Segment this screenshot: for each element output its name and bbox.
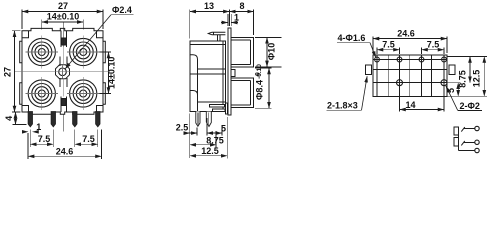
corner step top-left <box>22 31 29 38</box>
body edge continuation behind side tabs <box>22 41 103 104</box>
jack C (bottom-left) circles <box>28 80 55 107</box>
ground wire to terminal 3 <box>458 150 474 152</box>
svg-text:13: 13 <box>204 1 214 11</box>
jack C centerlines <box>26 77 59 110</box>
dim 1 (flange thickness) <box>221 13 239 27</box>
slot left 1.8x3 <box>365 65 371 74</box>
svg-text:27: 27 <box>3 67 13 77</box>
dim 12.5 <box>190 117 228 158</box>
upper barrel <box>231 37 253 67</box>
hole G2 Φ2 <box>441 80 447 86</box>
switch contact 2 wire <box>464 141 475 143</box>
label 2-1.8×3 with leader <box>327 76 368 111</box>
dim 24.6 extension lines <box>373 37 447 54</box>
lower barrel <box>231 78 253 108</box>
switch contact 1 wire <box>464 128 475 130</box>
dim 8.75 <box>190 131 224 147</box>
jack B centerlines <box>67 36 100 69</box>
flange plate <box>228 28 231 115</box>
pin P1 <box>28 112 32 127</box>
dim 27 top dimension line <box>22 11 103 13</box>
svg-text:4: 4 <box>4 116 14 121</box>
contact block rectangle 1 <box>454 127 458 135</box>
svg-text:7.5: 7.5 <box>427 40 440 50</box>
dim 7.5 right pair <box>75 130 98 147</box>
dim 14±0.10 top dimension line <box>42 20 83 30</box>
svg-text:4-Φ1.6: 4-Φ1.6 <box>338 33 366 43</box>
dim 27 top extension lines <box>22 10 103 30</box>
jack B (top-right) circles <box>70 38 97 65</box>
dim 7.5 left pair <box>30 130 53 147</box>
svg-text:1: 1 <box>36 122 41 132</box>
svg-text:1: 1 <box>234 13 239 23</box>
svg-text:12.5: 12.5 <box>472 70 482 88</box>
bottom center slot <box>61 97 66 113</box>
ground tab support <box>217 35 219 41</box>
dim 14±0.10 right dimension line <box>108 52 110 94</box>
label 4-Φ1.6 with leader <box>337 33 376 57</box>
corner step bottom-right <box>97 106 104 113</box>
common vertical wire <box>457 127 459 151</box>
corner step bottom-left <box>22 106 29 113</box>
housing (side) <box>190 41 226 112</box>
hole H2 Φ1.6 <box>397 57 402 62</box>
svg-text:8.75: 8.75 <box>206 136 224 146</box>
svg-text:7.5: 7.5 <box>82 134 95 144</box>
center hole Φ2.4 with octagon boss <box>15 47 110 97</box>
hole G1 Φ2 <box>397 80 403 86</box>
dim 13 dimension line <box>190 11 230 13</box>
svg-text:5: 5 <box>446 88 456 93</box>
dim 24.6 bottom <box>28 130 101 159</box>
ground tab tick <box>213 32 215 35</box>
svg-text:14: 14 <box>405 100 415 110</box>
dim 27 left extension lines <box>12 31 21 112</box>
corner step top-right <box>97 31 104 38</box>
dim 8 dimension line <box>229 11 253 13</box>
dim 4 (pin length) <box>4 112 26 125</box>
dim 1 (pin width) <box>23 122 42 132</box>
grid row line through Φ2 holes <box>373 82 447 84</box>
dim 7.5 right <box>422 40 445 55</box>
hole H3 Φ1.6 <box>419 57 424 62</box>
svg-text:8.75: 8.75 <box>457 70 467 88</box>
jack D centerlines <box>67 77 100 110</box>
svg-text:12.5: 12.5 <box>201 146 219 156</box>
terminal 2 circle <box>475 140 479 144</box>
dim 14±0.10 right extension lines <box>98 52 111 94</box>
dim Φ10 <box>255 37 282 67</box>
housing internal lines <box>190 41 226 112</box>
top center slot <box>61 23 66 48</box>
svg-text:2-Φ2: 2-Φ2 <box>460 101 480 111</box>
grid column lines (hole columns) <box>377 55 444 96</box>
slot right 1.8x3 <box>449 65 455 74</box>
label Φ2.4 underline <box>111 14 134 16</box>
side view pin S1 <box>196 111 200 126</box>
flange boss between barrels <box>231 70 235 77</box>
switch contact 1 tick <box>461 127 465 132</box>
svg-text:2.5: 2.5 <box>176 123 189 133</box>
contact bar upper <box>209 105 224 108</box>
jack D (bottom-right) circles <box>70 80 97 107</box>
leader for Φ2.4 to center hole <box>65 15 111 69</box>
svg-text:14±0.10: 14±0.10 <box>47 12 79 22</box>
footprint body rectangle <box>373 55 447 96</box>
flange foot <box>226 103 228 114</box>
dim 14 <box>400 96 445 111</box>
svg-text:24.6: 24.6 <box>56 146 74 156</box>
dim 13 extension lines <box>190 10 254 39</box>
svg-text:27: 27 <box>58 1 68 11</box>
terminal 3 circle <box>475 148 479 152</box>
thin intermediate column lines <box>388 55 431 96</box>
body outline of jack block <box>20 28 106 114</box>
dim 5 <box>446 83 461 97</box>
pin P4 <box>96 112 100 127</box>
side view pin S1 hatch <box>197 113 199 125</box>
side view pin S2 <box>206 112 211 127</box>
hole H4 Φ1.6 <box>442 57 447 62</box>
hole H1 Φ1.6 <box>375 57 380 62</box>
svg-text:Φ10: Φ10 <box>267 43 277 60</box>
svg-text:Φ8.4: Φ8.4 <box>255 80 265 100</box>
side view pin S2 hatch <box>208 113 210 125</box>
jack A (top-left) circles <box>28 38 55 65</box>
svg-text:7.5: 7.5 <box>38 134 51 144</box>
pin P3 <box>73 112 77 127</box>
dims 2.5 and 5 <box>176 114 226 159</box>
pin P2 <box>51 112 55 127</box>
svg-text:8: 8 <box>239 1 244 11</box>
terminal 1 circle <box>475 126 479 130</box>
dim 7.5 left <box>377 40 400 55</box>
svg-text:5: 5 <box>221 124 226 134</box>
label 2-Φ2 with leader <box>446 86 482 111</box>
jack A centerlines <box>26 36 59 69</box>
grid row line through top holes <box>373 59 447 61</box>
contact block rectangle 2 <box>454 138 458 147</box>
svg-text:14±0.10: 14±0.10 <box>107 57 117 89</box>
svg-text:2-1.8×3: 2-1.8×3 <box>327 101 358 111</box>
switch contact 2 tick <box>461 141 465 146</box>
dim 8.75 right <box>448 57 487 88</box>
center tail line below bottom slot <box>63 114 65 131</box>
dim 24.6 dimension line <box>373 38 447 40</box>
svg-text:24.6: 24.6 <box>397 28 415 38</box>
ground tab on top <box>208 32 225 35</box>
dim 27 left dimension line <box>14 31 16 112</box>
svg-text:7.5: 7.5 <box>382 40 395 50</box>
dim 12.5 right <box>448 57 487 97</box>
svg-text:Φ2.4: Φ2.4 <box>112 5 132 15</box>
grid row line through side slots <box>373 69 447 71</box>
dim Φ8.4 -0.10 <box>255 64 272 108</box>
svg-text:0: 0 <box>255 72 262 76</box>
contact bar lower <box>212 109 225 112</box>
